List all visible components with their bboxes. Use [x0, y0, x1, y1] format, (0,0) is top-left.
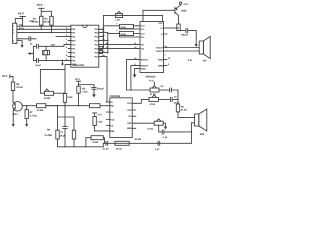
svg-text:51 kΩ: 51 kΩ [181, 109, 187, 112]
svg-text:4: 4 [13, 40, 14, 43]
wire R2OUT route [131, 65, 137, 90]
wire T1IN [102, 44, 137, 46]
wire Trig line [19, 28, 68, 30]
svg-text:10 µF: 10 µF [120, 26, 126, 29]
svg-text:10 kΩ: 10 kΩ [37, 109, 43, 112]
capacitor C10 on rail [155, 141, 160, 151]
svg-text:47 kΩ: 47 kΩ [150, 103, 156, 106]
resistor R10 on loop right [72, 130, 75, 139]
capacitor C8 10uF [170, 96, 179, 105]
wire bottom rail [103, 142, 191, 144]
wire P32 stub left [56, 36, 68, 38]
wire T2IN [102, 48, 137, 50]
resistor R6 10k [11, 82, 22, 102]
power +5V rail A [36, 3, 51, 16]
wire U3 pin7 chain [136, 99, 149, 103]
wire P16 to vbus2 [102, 52, 108, 54]
op-amp U3 CX20106A [110, 95, 133, 138]
svg-text:51 kΩ: 51 kΩ [148, 127, 154, 130]
node Q1 collector [12, 101, 13, 102]
ground U2 GND pin [133, 68, 137, 77]
svg-text:8550: 8550 [181, 10, 187, 13]
wire bus horizontal [40, 68, 65, 70]
node junction R1/Trig [41, 29, 42, 30]
resistor R12 to pin [93, 117, 106, 132]
svg-text:9014: 9014 [12, 113, 18, 116]
svg-text:1 µF: 1 µF [155, 148, 160, 151]
transistor Q2 8550 [143, 5, 187, 25]
svg-text:GND: GND [141, 67, 146, 70]
ground connector pin4 [19, 41, 24, 49]
resistor R5 1k vertical [63, 94, 66, 118]
wire speaker R40 bottom [191, 123, 194, 144]
svg-text:CSB: CSB [29, 20, 34, 23]
svg-text:12M: 12M [51, 43, 55, 46]
capacitor C6 10uF [108, 30, 137, 37]
node bottom joint [191, 131, 192, 132]
svg-text:1: 1 [13, 25, 14, 28]
svg-text:T1I: T1I [141, 44, 144, 47]
wire MCU P17 to U3 [102, 57, 107, 102]
ground R7 [25, 124, 28, 127]
svg-text:100 µF: 100 µF [97, 87, 105, 90]
capacitor C4 22k tent [40, 89, 65, 100]
svg-text:22 pF: 22 pF [36, 64, 42, 67]
capacitor C5 10uF [103, 23, 136, 29]
resistor R9 5.1M on loop left [45, 129, 60, 139]
wire P11 stub [102, 32, 108, 34]
svg-text:GND: GND [127, 127, 132, 130]
svg-text:OUT: OUT [127, 102, 132, 105]
resistor R4 collector [177, 24, 186, 31]
capacitor C13 10uF [90, 85, 104, 95]
power +5V circle Q2 [179, 2, 188, 6]
power +5V rail B [15, 11, 25, 26]
transistor Q1 9014 [12, 102, 22, 125]
svg-text:T2OUT: T2OUT [156, 50, 164, 53]
capacitor C12 1uF [159, 125, 192, 139]
svg-text:V-: V- [161, 33, 163, 36]
wire P12 stub [102, 36, 104, 38]
wire V+ to collector [167, 27, 179, 29]
U3 right pins [127, 102, 136, 130]
svg-text:1 kΩ: 1 kΩ [97, 121, 102, 124]
capacitor C3 100uF [181, 29, 196, 37]
resistor R5 1k [77, 85, 88, 107]
svg-text:GND: GND [71, 63, 76, 66]
svg-text:4.7 kΩ: 4.7 kΩ [30, 114, 37, 117]
svg-text:C1-: C1- [141, 28, 145, 31]
wire arrow down to speaker [195, 31, 198, 48]
op-amp U1 MCU AT89C2051 [71, 25, 99, 67]
power +5V U3 pull [93, 113, 103, 117]
ground crystal bottom [61, 60, 64, 66]
connector P1 ultrasonic header [13, 20, 35, 44]
resistor R14 75k below [86, 136, 105, 147]
wire P13 stub [102, 40, 108, 42]
svg-text:+5 V: +5 V [183, 3, 188, 6]
U1 left pins [66, 27, 77, 66]
node +5V feed [78, 84, 79, 85]
resistor R11 input series [46, 104, 107, 108]
svg-text:+5 V: +5 V [2, 74, 8, 78]
wire U1 GND pin to bus [65, 65, 68, 70]
svg-text:R1OUT: R1OUT [141, 58, 149, 61]
wire vbus2 P1x [107, 33, 109, 53]
capacitor C11 [161, 85, 179, 92]
resistor R13 on rail [115, 138, 141, 151]
capacitor C0 decouple [19, 37, 36, 41]
resistor R18 51k tent [136, 119, 163, 131]
svg-text:C2-: C2- [141, 36, 145, 39]
svg-text:T2I: T2I [141, 48, 144, 51]
svg-text:R2OUT: R2OUT [141, 64, 149, 67]
svg-text:+5 V: +5 V [149, 79, 154, 82]
wire upper receive chain [127, 89, 151, 91]
svg-text:3: 3 [13, 32, 14, 35]
U1 right pins [95, 27, 109, 59]
capacitor C2 22pF [33, 58, 68, 66]
wire bus right drop [64, 69, 66, 93]
svg-text:VCC: VCC [127, 109, 132, 112]
crystal Y1 12MHz [43, 43, 55, 60]
svg-text:R1IN: R1IN [158, 58, 163, 61]
power +5V rail C [2, 74, 13, 82]
svg-text:T1OUT: T1OUT [156, 46, 164, 49]
svg-text:1 kΩ: 1 kΩ [115, 19, 120, 22]
wire T2OUT to speaker [167, 50, 199, 52]
ground C13 [92, 94, 96, 97]
U3 left pins [106, 101, 115, 133]
wire VCC to +5V [17, 25, 71, 27]
svg-text:CX20106: CX20106 [110, 95, 121, 98]
svg-text:75 kΩ: 75 kΩ [92, 141, 98, 144]
svg-text:RST: RST [71, 40, 76, 43]
svg-text:10 kΩ: 10 kΩ [116, 148, 122, 151]
svg-text:REF: REF [110, 130, 115, 133]
wire into module loop [57, 106, 59, 117]
svg-text:+5 V: +5 V [36, 3, 43, 7]
wire bottom rail left [74, 143, 103, 147]
svg-text:VCC: VCC [110, 118, 115, 121]
svg-text:+5 V: +5 V [75, 78, 80, 81]
svg-text:10 kΩ: 10 kΩ [16, 86, 22, 89]
svg-text:1 kΩ: 1 kΩ [82, 90, 87, 93]
svg-text:1 kΩ: 1 kΩ [67, 96, 72, 99]
wire receive vertical [177, 90, 179, 104]
wire to speaker R40 top [178, 116, 195, 118]
op-amp U2 MAX232 [140, 22, 164, 79]
node pin boxes [99, 46, 102, 49]
wire +5V feed [79, 84, 95, 86]
resistor R17 51k [176, 104, 187, 117]
wire vbus1 P1x [102, 16, 104, 49]
wire T1OUT to speaker [167, 47, 199, 49]
wire P10 stub [102, 28, 104, 30]
svg-text:DET: DET [127, 122, 132, 125]
wire Echo line [19, 32, 68, 34]
svg-text:100 µF: 100 µF [181, 34, 189, 37]
svg-text:GC: GC [128, 115, 132, 118]
capacitor C9 on rail [103, 141, 110, 150]
svg-text:2: 2 [13, 28, 14, 31]
node vbus2 T1IN [107, 44, 108, 45]
svg-text:VCC: VCC [158, 22, 163, 25]
power +5V below U1 [75, 78, 81, 84]
svg-text:8 Ω: 8 Ω [188, 59, 192, 62]
resistor R16 47k tent [149, 95, 170, 106]
svg-text:MAX232: MAX232 [146, 76, 156, 79]
capacitor C7 10uF middle branch [60, 117, 68, 147]
capacitor C1 22pF [30, 43, 68, 49]
node chain joint [130, 89, 131, 90]
svg-text:10 µF: 10 µF [60, 134, 66, 137]
svg-text:R2IN: R2IN [158, 64, 163, 67]
svg-text:0.1 µF: 0.1 µF [103, 148, 110, 151]
node vbus1 T2IN [103, 48, 104, 49]
wire Q1 collector out [22, 105, 36, 107]
svg-text:R40: R40 [200, 133, 205, 136]
node vbus2 bottom [107, 52, 108, 53]
ground crystal rail arrow [28, 52, 34, 55]
wire R1OUT route [127, 59, 137, 90]
ground 51k tent [163, 123, 167, 129]
resistor R1 10k pull-up [32, 16, 43, 29]
wire crystal rail [32, 46, 34, 60]
svg-text:10 kΩ: 10 kΩ [44, 21, 50, 24]
svg-text:51 kΩ: 51 kΩ [135, 138, 141, 141]
U2 right pins [156, 22, 171, 68]
svg-text:+5 V: +5 V [97, 114, 102, 117]
resistor R3 1k tent [115, 11, 122, 21]
resistor R8 10k horizontal [37, 104, 58, 113]
svg-text:1 µF: 1 µF [163, 136, 168, 139]
wire bus left drop [39, 69, 41, 93]
speaker B2 R40 receiver [195, 109, 207, 136]
svg-text:5.1 MΩ: 5.1 MΩ [45, 134, 53, 137]
ground Q1 emitter [12, 124, 15, 127]
module loop box [58, 117, 75, 147]
power +5V bias chain [149, 79, 155, 85]
svg-text:10 µF: 10 µF [120, 33, 126, 36]
wire VCC top run [103, 10, 162, 21]
node bus right drop joint [64, 93, 65, 94]
svg-text:+5 V: +5 V [18, 11, 25, 15]
node amp out [57, 105, 58, 106]
resistor R15 47k tent [150, 86, 169, 96]
resistor R2 10k pull-up [44, 16, 54, 32]
node receive joint [177, 99, 178, 100]
node junction R2/Echo [51, 32, 52, 33]
speaker B1 T40 transmitter [188, 36, 210, 62]
svg-text:22 kΩ: 22 kΩ [44, 97, 50, 100]
U2 left pins [134, 25, 148, 71]
resistor R7 4.7k [25, 105, 37, 124]
